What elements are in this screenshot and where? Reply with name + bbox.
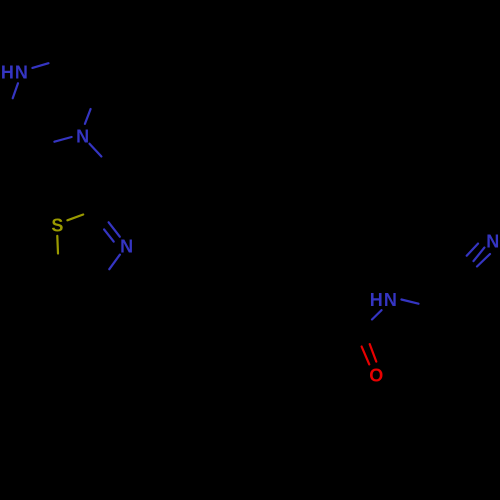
wire C#N triple bond line B half xyxy=(474,248,485,262)
svg-text:H: H xyxy=(370,290,383,310)
svg-text:N: N xyxy=(120,237,133,257)
node N1 piperazine HN label xyxy=(1,62,28,82)
svg-text:N: N xyxy=(384,290,397,310)
svg-text:O: O xyxy=(369,366,383,386)
node amide HN label xyxy=(370,290,397,310)
wire amide N-C(=O) half xyxy=(372,310,382,319)
wire C#N triple bond line C half xyxy=(477,254,490,267)
wire C=O double bond line 1 half xyxy=(362,347,370,365)
wire S1-C5 half (thiazole) xyxy=(56,236,59,254)
wire N3-C4 half xyxy=(109,255,120,270)
wire C#N triple bond line A half xyxy=(467,244,478,256)
svg-text:H: H xyxy=(1,62,14,82)
svg-text:S: S xyxy=(51,215,63,235)
wire C2=N3 double bond line B half xyxy=(104,229,114,241)
wire N1-C6 half xyxy=(13,83,18,98)
wire N1-C2 half xyxy=(32,63,48,68)
wire S1-C2 half (thiazole) xyxy=(67,215,83,221)
svg-text:N: N xyxy=(76,127,89,147)
wire C5-N4 half xyxy=(54,137,71,142)
wire C2=N3 double bond line A half xyxy=(109,222,120,236)
wire C=O double bond line 2 half xyxy=(370,344,377,362)
wire N4-CH half xyxy=(90,144,102,157)
svg-text:N: N xyxy=(15,62,28,82)
svg-text:N: N xyxy=(486,232,499,252)
wire amide N-CH2 half xyxy=(401,300,418,304)
wire C3-N4 half xyxy=(85,109,91,124)
